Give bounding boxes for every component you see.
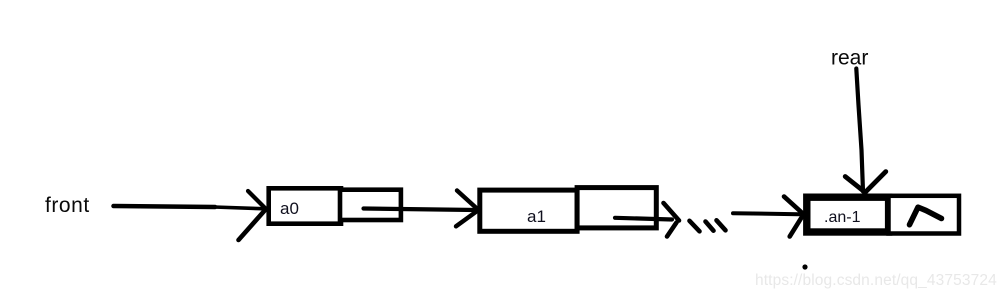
front arrowhead	[239, 191, 267, 240]
svg-text:rear: rear	[831, 47, 868, 70]
a1 next arrowhead	[664, 203, 680, 237]
arrowhead into rear node	[784, 197, 804, 237]
rear arrowhead	[845, 172, 886, 193]
node an-1 data cell	[807, 197, 889, 232]
wire to rear node shaft	[733, 213, 799, 214]
watermark	[755, 272, 997, 289]
svg-text:front: front	[45, 194, 90, 217]
ellipsis dash 1	[690, 221, 700, 232]
node a0 data cell	[269, 188, 341, 223]
a0 next arrowhead	[456, 191, 479, 227]
label front	[45, 194, 90, 217]
svg-text:.an-1: .an-1	[824, 209, 861, 226]
node a1 pointer cell	[577, 188, 656, 228]
svg-text:https://blog.csdn.net/qq_43753: https://blog.csdn.net/qq_43753724	[755, 272, 997, 289]
label rear	[831, 47, 868, 70]
stray dot	[802, 264, 807, 269]
node a0 pointer cell	[340, 190, 401, 220]
svg-text:a0: a0	[280, 199, 299, 218]
svg-text:a1: a1	[527, 207, 546, 226]
wire a0 next arrow shaft	[364, 209, 477, 211]
ellipsis dash 3	[717, 220, 726, 230]
null mark squiggle in an-1 pointer cell	[910, 207, 942, 225]
wire a1 next arrow shaft	[615, 218, 672, 220]
node an-1 pointer cell	[889, 196, 960, 234]
wire front arrow shaft	[114, 206, 264, 209]
node a1 data cell	[480, 190, 577, 231]
ellipsis dash 2	[706, 222, 714, 231]
wire rear arrow shaft	[856, 69, 863, 192]
